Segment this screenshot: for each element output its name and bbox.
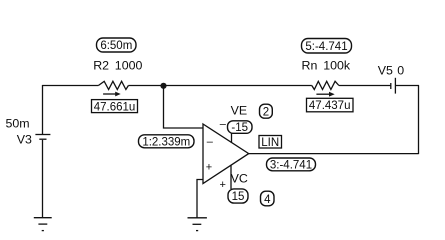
wire segment: junction to Rn [164, 85, 312, 87]
wire: non-inverting input to ground [197, 180, 203, 218]
current arrow through R2 [103, 92, 121, 97]
svg-text:50m: 50m [6, 117, 30, 131]
wire segment: op-amp output [249, 153, 419, 155]
bias voltage label 3:-4.741 [267, 158, 316, 172]
svg-text:100k: 100k [323, 59, 351, 73]
svg-text:V5: V5 [378, 63, 393, 77]
svg-text:47.661u: 47.661u [94, 101, 136, 113]
svg-text:3:-4.741: 3:-4.741 [270, 160, 312, 172]
svg-text:–: – [207, 136, 214, 148]
voltage source V3 (battery symbol) [35, 135, 50, 140]
net label LIN [259, 136, 282, 149]
svg-text:4: 4 [264, 194, 271, 206]
svg-text:–: – [220, 118, 227, 130]
svg-text:LIN: LIN [261, 137, 279, 149]
svg-text:Rn: Rn [302, 59, 318, 73]
wire segment: R2 to junction [128, 85, 163, 87]
svg-text:15: 15 [232, 191, 245, 203]
wire: junction down to inverting input [164, 86, 204, 129]
svg-text:2: 2 [263, 106, 269, 118]
current arrow through Rn [316, 92, 334, 97]
wire: VC supply stub [230, 165, 232, 189]
label V5 0 [378, 63, 404, 77]
ground (below op-amp) [188, 218, 207, 231]
svg-text:V3: V3 [17, 133, 32, 147]
svg-text:6:50m: 6:50m [100, 40, 132, 52]
svg-text:VC: VC [231, 172, 248, 186]
op-amp U1 (triangle) [203, 124, 249, 184]
wire segment: Rn to V5 [339, 85, 391, 87]
label R2 1000 [93, 59, 142, 73]
current label 47.437u [307, 98, 354, 112]
resistor R2 [98, 81, 128, 89]
wire segment: top-left horizontal (V3 node to R2) [43, 85, 99, 87]
bias voltage label 1:2.339m [139, 135, 195, 149]
svg-text:0: 0 [397, 63, 404, 77]
wire segment: V3 to ground [42, 140, 44, 218]
wire segment: feedback vertical [418, 86, 420, 155]
bias voltage label 5:-4.741 [302, 39, 352, 54]
svg-text:47.437u: 47.437u [309, 100, 351, 112]
svg-text:1:2.339m: 1:2.339m [142, 137, 190, 149]
svg-text:+: + [206, 162, 212, 174]
current label 47.661u [92, 100, 138, 114]
svg-text:VE: VE [231, 103, 248, 117]
label Rn 100k [302, 59, 351, 73]
wire: VE supply stub [231, 133, 233, 143]
svg-text:+: + [220, 179, 226, 191]
junction node (summing point) [160, 83, 166, 89]
ground (below V3) [34, 218, 52, 231]
wire segment: left vertical down to V3 [42, 85, 44, 134]
resistor Rn [312, 81, 339, 89]
bias voltage label 6:50m [97, 38, 137, 52]
svg-text:R2: R2 [93, 59, 109, 73]
pin number 2 [260, 104, 273, 118]
wire segment: V5 to feedback corner [395, 85, 419, 87]
voltage source V5 (battery symbol) [391, 78, 396, 94]
pin number 4 [261, 191, 275, 206]
supply value label -15 [228, 121, 253, 134]
svg-text:-15: -15 [231, 122, 248, 134]
svg-text:1000: 1000 [115, 59, 143, 73]
svg-text:5:-4.741: 5:-4.741 [305, 41, 347, 53]
supply value label 15 [228, 189, 248, 203]
